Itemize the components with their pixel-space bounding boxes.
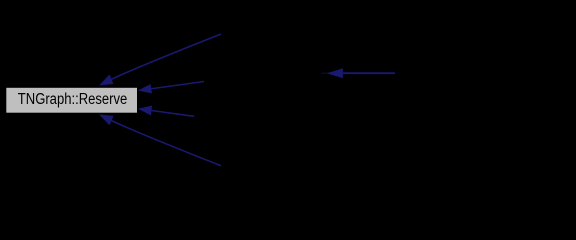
- arrowhead A: [99, 75, 114, 86]
- arrowhead D: [99, 114, 114, 125]
- edge E: horizontal arrow between invisible nodes at right: [343, 72, 395, 74]
- edge E spline overshoot at node boundary: [322, 72, 331, 74]
- edge D: curve from invisible caller node (221,165.8) to box bottom: [112, 121, 222, 166]
- arrowhead C: [138, 106, 152, 116]
- arrowhead E: [327, 68, 343, 78]
- edge B: line from invisible caller node (204,81.5) to box right edge: [151, 82, 204, 89]
- arrowhead B: [138, 84, 152, 94]
- node TNGraph::Reserve (current node box): [6, 87, 138, 113]
- edge A: curve from invisible caller node (221,34) to box top: [112, 34, 222, 79]
- svg-text:TNGraph::Reserve: TNGraph::Reserve: [18, 91, 128, 108]
- edge C: line from invisible caller node (194,116.3) to box right edge: [152, 111, 195, 117]
